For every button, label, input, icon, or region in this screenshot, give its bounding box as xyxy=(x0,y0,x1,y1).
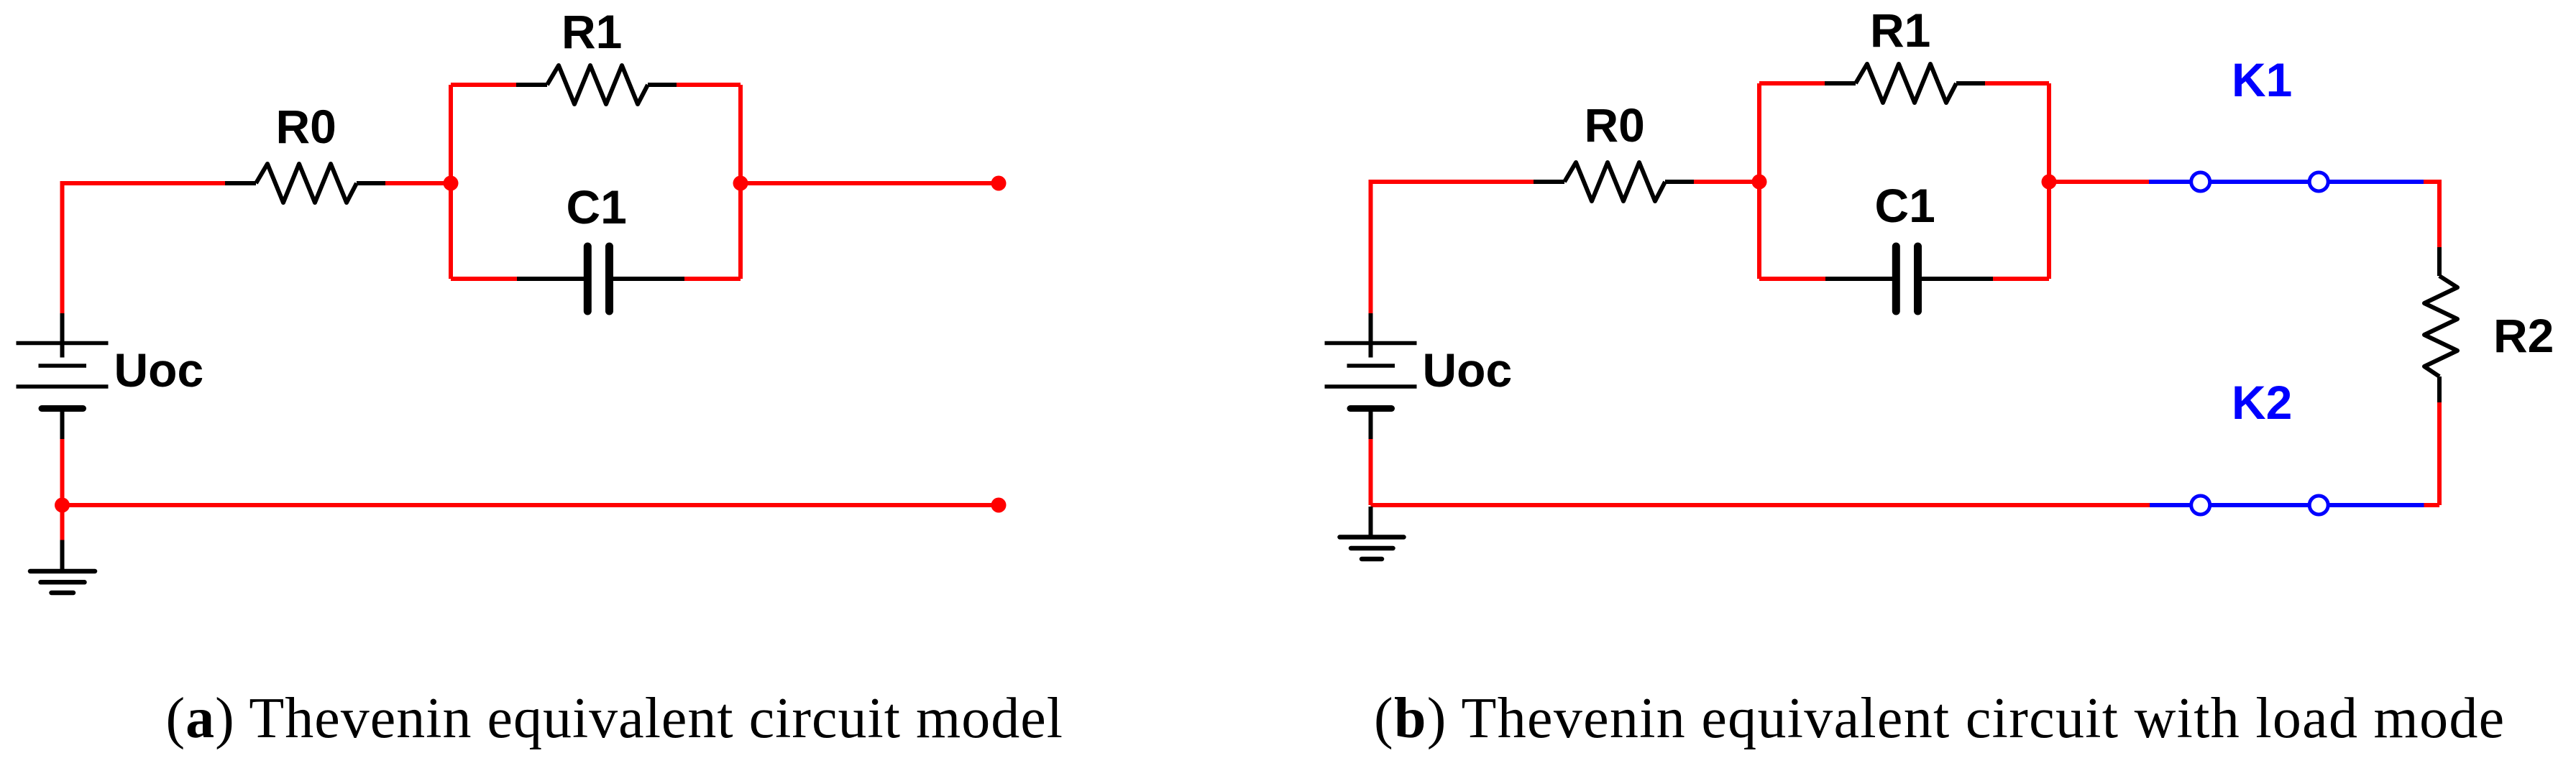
wire: R0 to node A (b) xyxy=(1694,180,1759,184)
resistor R1 (a) xyxy=(516,65,677,104)
wire: box bottom left segment (b) xyxy=(1759,277,1825,281)
svg-text:C1: C1 xyxy=(567,180,627,234)
wire: node B to positive terminal (a) xyxy=(741,181,999,185)
wire: battery top to R0 (b) xyxy=(1371,182,1534,313)
svg-text:Uoc: Uoc xyxy=(1423,343,1513,397)
wire: box top left segment (b) xyxy=(1759,81,1825,86)
wire: node B to switch K1 (b) xyxy=(2049,180,2149,184)
svg-text:C1: C1 xyxy=(1875,179,1935,232)
wire: bottom rail (b) xyxy=(1371,503,2150,507)
wire: parallel box left vertical (a) xyxy=(449,85,453,279)
svg-text:(a) Thevenin equivalent circui: (a) Thevenin equivalent circuit model xyxy=(166,687,1063,750)
wire: box top right segment (b) xyxy=(1985,81,2049,86)
wire: box bottom left segment (a) xyxy=(451,277,517,281)
wire: R2 to bottom right corner (b) xyxy=(2437,402,2442,505)
svg-text:R0: R0 xyxy=(1585,98,1645,152)
ground (a) xyxy=(30,540,95,593)
svg-text:R1: R1 xyxy=(562,5,622,58)
node B junction dot (a) xyxy=(733,176,748,191)
wire: bottom rail to negative terminal (a) xyxy=(63,503,999,507)
resistor R1 (b) xyxy=(1825,64,1985,103)
ground (b) xyxy=(1340,507,1404,559)
wire: parallel box right vertical (a) xyxy=(738,85,743,279)
svg-text:R0: R0 xyxy=(276,100,336,153)
svg-text:(b) Thevenin equivalent circui: (b) Thevenin equivalent circuit with loa… xyxy=(1374,687,2506,750)
ground node junction dot (a) xyxy=(55,498,70,513)
battery Uoc (b) xyxy=(1325,313,1417,439)
wire: box bottom right segment (b) xyxy=(1993,277,2049,281)
wire: parallel box left vertical (b) xyxy=(1757,83,1761,279)
svg-text:K2: K2 xyxy=(2232,376,2292,429)
svg-text:R2: R2 xyxy=(2493,309,2554,362)
wire: battery top to R0 (a) xyxy=(63,183,226,313)
svg-text:R1: R1 xyxy=(1870,4,1930,57)
wire: box top right segment (a) xyxy=(677,83,741,87)
wire: switch K1 to top right corner (b) xyxy=(2424,182,2439,247)
wire: parallel box right vertical (b) xyxy=(2047,83,2051,279)
wire: box bottom right segment (a) xyxy=(684,277,741,281)
resistor R0 (a) xyxy=(225,164,385,203)
wire: battery bottom to bottom rail corner (b) xyxy=(1369,439,1373,505)
wire: ground stem red part (a) xyxy=(60,505,65,540)
wire: bottom right corner to switch K2 (b) xyxy=(2424,503,2440,507)
node A junction dot (a) xyxy=(444,176,459,191)
resistor R0 (b) xyxy=(1534,162,1694,201)
switch K2 xyxy=(2150,496,2424,514)
svg-text:K1: K1 xyxy=(2232,53,2292,106)
battery Uoc (a) xyxy=(17,313,109,439)
svg-text:Uoc: Uoc xyxy=(114,343,204,397)
positive terminal dot (a) xyxy=(991,176,1007,191)
switch K1 xyxy=(2149,172,2424,191)
resistor R2 (b) xyxy=(2424,247,2457,402)
node A junction dot (b) xyxy=(1752,175,1767,190)
wire: box top left segment (a) xyxy=(451,83,516,87)
wire: battery bottom to ground node (a) xyxy=(60,439,65,505)
wire: R0 to node A (a) xyxy=(385,181,451,185)
node B junction dot (b) xyxy=(2042,175,2057,190)
negative terminal dot (a) xyxy=(991,498,1007,513)
capacitor C1 (b) xyxy=(1825,246,1993,311)
capacitor C1 (a) xyxy=(517,246,684,311)
